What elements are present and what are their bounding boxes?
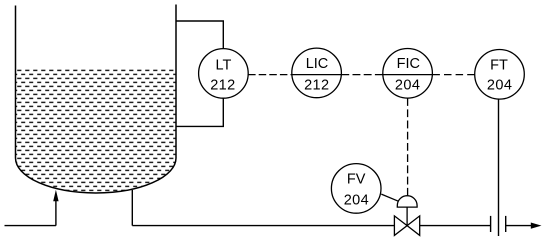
valve stem: [406, 207, 408, 226]
svg-text:212: 212: [304, 77, 329, 93]
svg-text:LIC: LIC: [306, 56, 329, 72]
LT top tap: [176, 21, 223, 49]
instrument LT-212: [199, 49, 249, 99]
svg-text:204: 204: [487, 77, 512, 93]
FT tap line: [498, 99, 500, 236]
instrument LIC-212: [292, 48, 342, 98]
vessel liquid fill: [15, 68, 177, 194]
svg-text:204: 204: [395, 77, 420, 93]
LT bottom tap: [176, 98, 223, 126]
vessel right wall: [175, 5, 177, 159]
inlet pipe: [5, 201, 56, 226]
valve body FV-204: [394, 216, 419, 236]
svg-text:FV: FV: [347, 172, 366, 188]
instrument FT-204: [475, 50, 525, 100]
outlet drop pipe: [131, 190, 133, 226]
svg-text:LT: LT: [215, 57, 231, 73]
flow arrowhead: [531, 223, 542, 229]
svg-text:212: 212: [210, 77, 235, 93]
instrument FV-204: [331, 164, 381, 214]
signal line LIC to FIC: [341, 74, 383, 76]
signal line FIC to FT: [432, 74, 474, 76]
link FV to actuator: [381, 194, 398, 201]
signal line LT to LIC: [248, 74, 292, 76]
svg-text:FT: FT: [490, 57, 508, 73]
vessel left wall: [15, 6, 17, 159]
outlet pipe: [506, 225, 532, 227]
valve actuator dome: [397, 196, 417, 207]
svg-text:204: 204: [344, 192, 369, 208]
vessel bottom head: [16, 158, 177, 193]
orifice flange right: [505, 216, 507, 232]
svg-text:FIC: FIC: [397, 56, 420, 72]
inlet arrowhead: [53, 190, 58, 202]
signal line FIC to valve actuator: [407, 98, 409, 196]
instrument FIC-204: [383, 49, 433, 99]
outlet pipe to valve: [132, 225, 394, 227]
pipe valve to orifice: [420, 225, 491, 227]
orifice flange left: [490, 216, 492, 232]
